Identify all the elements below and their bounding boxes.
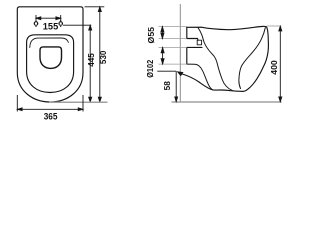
- extension line from right hole to 445: [63, 24, 91, 26]
- front view: seat outer ring: [27, 35, 74, 93]
- svg-text:530: 530: [99, 50, 108, 64]
- dimension 445: [89, 25, 92, 102]
- side view: inlet spigot (Ø55): [187, 27, 198, 40]
- Ø55 dimension: [159, 27, 187, 39]
- dimension 58: [157, 71, 177, 102]
- front view: left fixing hole: [34, 20, 38, 27]
- dimension 155: [36, 15, 61, 21]
- svg-text:365: 365: [44, 112, 58, 122]
- floor line under side view: [172, 101, 282, 103]
- svg-text:155: 155: [43, 21, 59, 31]
- side view: small connector box: [197, 40, 201, 45]
- wall line: [179, 4, 181, 102]
- front view: water area: [40, 47, 62, 69]
- side view: outlet flow arrow: [177, 71, 184, 76]
- dimension 530: [98, 7, 101, 102]
- svg-text:400: 400: [270, 60, 279, 75]
- Ø102 dimension: [159, 47, 187, 64]
- dimension 365: [17, 95, 83, 112]
- front view: seat inner lip line: [30, 38, 69, 48]
- svg-text:445: 445: [87, 53, 96, 67]
- side view: pan outline (top edge, front face, underside to wall): [181, 26, 269, 91]
- svg-text:Ø102: Ø102: [146, 59, 155, 77]
- dimension 400: [267, 25, 282, 27]
- front view: right fixing hole: [59, 20, 63, 27]
- svg-text:Ø55: Ø55: [147, 26, 156, 43]
- side view: back-of-bowl S curve: [198, 28, 233, 91]
- front view: outer pan outline: [17, 7, 83, 102]
- svg-text:58: 58: [163, 81, 172, 91]
- extension line for 530 (top): [85, 6, 105, 8]
- side view: inner rim / bowl cavity line: [239, 28, 265, 89]
- floor line under front view: [49, 101, 108, 103]
- side view: outlet spigot cap and top: [187, 47, 202, 64]
- side view: outlet spigot bottom curve into underside: [187, 64, 213, 90]
